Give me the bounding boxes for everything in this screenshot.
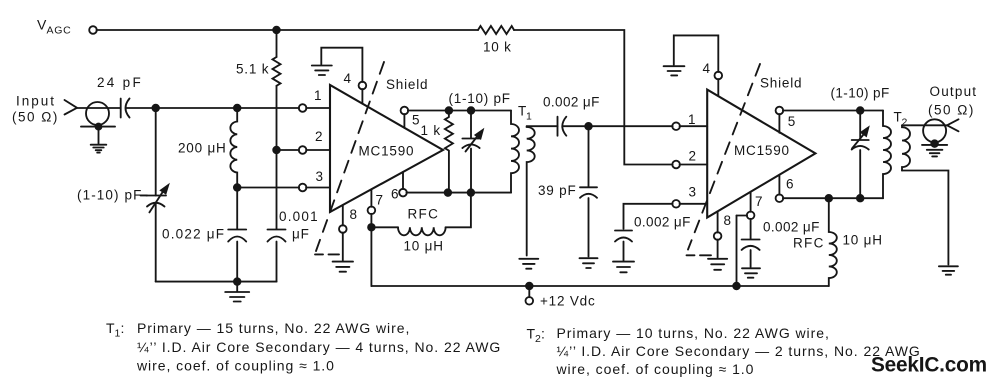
svg-text:Primary — 10 turns, No. 22 AWG: Primary — 10 turns, No. 22 AWG wire, (557, 325, 830, 341)
wire output bottom bar (922, 144, 947, 146)
RFC1 wire pin7 to coil (371, 226, 398, 228)
wire pin4 to ground U1 (321, 48, 362, 82)
node tank1 top A (446, 107, 453, 114)
op-amp U1 MC1590 triangle (330, 85, 443, 212)
capacitor C10 trimmer 1-10pF (852, 111, 869, 199)
wire source bottom bar (81, 126, 115, 128)
svg-text:0.022 μF: 0.022 μF (162, 226, 225, 241)
pin 7 circle U1 (368, 207, 376, 215)
wire pin5 row U2 (783, 110, 883, 112)
svg-text:4: 4 (344, 71, 352, 86)
wire pin2 stub U1 (306, 149, 330, 151)
wire pin6 row (407, 192, 512, 194)
pin 3 circle U1 (299, 184, 307, 192)
ground output (927, 150, 943, 157)
node pin2 junction (273, 147, 280, 154)
shield dashes to ground U1 (315, 253, 339, 255)
pin 4 circle U2 (715, 72, 723, 80)
svg-text:MC1590: MC1590 (734, 143, 790, 158)
wire C4 bottom (276, 242, 278, 282)
wire pin4 to ground U2 (674, 35, 719, 72)
svg-text:0.002 μF: 0.002 μF (763, 219, 820, 234)
terminal VAGC (89, 26, 97, 34)
capacitor C5 trimmer 1-10pF (462, 111, 479, 193)
resistor R3 1k (445, 111, 453, 193)
svg-text::: : (121, 320, 126, 336)
wire pin7 stub U1 (370, 189, 372, 207)
transformer T1 primary (511, 111, 519, 193)
svg-text:0.002 μF: 0.002 μF (634, 215, 691, 230)
ground input (91, 145, 107, 153)
wire C6 to pin1 U2 (563, 125, 673, 127)
capacitor C3 0.022uF (228, 230, 246, 242)
wire pin7 stub U2 (750, 192, 752, 212)
wire +12V terminal stub (528, 286, 530, 297)
node riser tap (733, 283, 740, 290)
node source bottom (96, 124, 102, 130)
capacitor C2 trimmer 1-10pF (147, 196, 167, 207)
wire VAGC rail right (514, 30, 673, 165)
wire input (77, 107, 120, 109)
wire C1 to pin1 (126, 107, 299, 109)
node pin7 junction (368, 224, 375, 231)
node VAGC-R1 junction (273, 27, 280, 34)
wire R1 top (276, 30, 278, 57)
svg-text:2: 2 (902, 117, 909, 129)
node tank1 bottom B (468, 189, 475, 196)
wire C8 stem (623, 242, 625, 261)
inductor RFC1 10uH (398, 227, 446, 235)
svg-text:0.001: 0.001 (279, 209, 319, 224)
capacitor C6 0.002uF coupling (558, 117, 567, 136)
svg-text:¼’’ I.D. Air Core Secondary —: ¼’’ I.D. Air Core Secondary — 4 turns, N… (137, 339, 501, 355)
svg-text:(50 Ω): (50 Ω) (928, 103, 975, 118)
pin 5 circle U1 (401, 107, 409, 115)
svg-text:4: 4 (703, 61, 711, 76)
arrow trimmer C10 (852, 135, 864, 149)
svg-text:6: 6 (391, 186, 399, 201)
arrow trimmer C5 (466, 136, 478, 152)
svg-text:RFC: RFC (793, 236, 825, 251)
svg-text:2: 2 (315, 129, 323, 144)
source output 50ohm circle (923, 119, 946, 142)
svg-text:1 k: 1 k (421, 123, 441, 138)
svg-text:¼’’ I.D. Air Core Secondary —: ¼’’ I.D. Air Core Secondary — 2 turns, N… (557, 343, 921, 359)
node tank2 bottom (857, 195, 864, 202)
pin 1 circle U2 (672, 122, 680, 130)
svg-text:Output: Output (930, 84, 978, 99)
pin 7 circle U2 (747, 212, 755, 220)
pin 6 circle U2 (776, 194, 784, 202)
svg-text:1: 1 (688, 112, 696, 127)
source input 50ohm circle (86, 102, 109, 125)
ground bottom-right (939, 266, 958, 274)
svg-text:8: 8 (350, 207, 358, 222)
wire pin6 row U2 (783, 197, 883, 199)
node input junction A (152, 105, 159, 112)
wire T2 secondary bottom (902, 171, 948, 265)
capacitor C7 39pF (580, 126, 597, 256)
inductor L1 200uH (230, 108, 237, 188)
svg-text:RFC: RFC (408, 206, 440, 221)
wire pin8 stub U2 (717, 212, 719, 233)
wire RFC1 right (446, 193, 471, 228)
wire pin3 row left U2 (624, 204, 673, 229)
wire AGC line down (276, 150, 278, 229)
wire pin7 down U1 (370, 214, 372, 228)
svg-text:24 pF: 24 pF (97, 75, 143, 90)
wire ground stub bottom-left (236, 282, 238, 292)
wire pin8 stub U1 (342, 205, 344, 226)
wire pin6 stub U1 (402, 172, 404, 189)
svg-text:MC1590: MC1590 (359, 143, 415, 158)
capacitor C4 0.001uF (268, 230, 286, 242)
terminal +12Vdc (526, 297, 534, 305)
shield dashed line U1 (316, 62, 384, 251)
node input junction B (234, 105, 241, 112)
ground pin4 U2 (664, 66, 685, 75)
svg-text:Shield: Shield (760, 75, 802, 90)
pin 2 circle U1 (299, 146, 307, 154)
pin 1 circle U1 (299, 104, 307, 112)
svg-text:SeekIC.com: SeekIC.com (871, 354, 987, 377)
wire trimmer C2 top (155, 108, 157, 196)
svg-text:5: 5 (412, 112, 420, 127)
node +12V terminal tap (526, 283, 533, 290)
svg-text:μF: μF (292, 226, 310, 241)
wire label tick 1-10pF left (141, 194, 148, 196)
arrow trimmer C2 (149, 192, 162, 212)
capacitor C9 0.002uF pin7 (742, 219, 760, 267)
svg-text:(50 Ω): (50 Ω) (12, 110, 59, 125)
ground pin8 U1 (333, 262, 353, 272)
svg-text:10 μH: 10 μH (843, 232, 883, 247)
wire pin4 stub U1 (361, 89, 363, 104)
wire pin3 row stage1 (237, 187, 299, 189)
wire riser rail to pin7 (736, 216, 738, 287)
ground pin4 U1 (312, 66, 332, 76)
capacitor C8 0.002uF pin3 (615, 231, 632, 242)
svg-text:2: 2 (689, 149, 697, 164)
wire output (902, 124, 947, 126)
wire C3 stem (236, 188, 238, 282)
pin 8 circle U2 (714, 232, 722, 240)
resistor R1 5.1k (273, 57, 281, 86)
svg-text:AGC: AGC (47, 25, 72, 37)
wire pin2 stub U2 (680, 164, 708, 166)
pin 8 circle U1 (339, 225, 347, 233)
ground C9 (742, 268, 760, 277)
shield dashed line U2 (688, 64, 760, 250)
svg-text:39 pF: 39 pF (538, 183, 577, 198)
svg-text:200 μH: 200 μH (178, 141, 227, 156)
svg-text:1: 1 (314, 88, 322, 103)
wire bottom-left rail (156, 281, 277, 283)
svg-text:wire, coef. of coupling ≈ 1.0: wire, coef. of coupling ≈ 1.0 (556, 361, 755, 377)
svg-text:3: 3 (316, 169, 324, 184)
svg-text:+12 Vdc: +12 Vdc (540, 294, 596, 309)
wire pin8 ground stub U2 (717, 240, 719, 258)
ground C8 (613, 262, 634, 273)
wire pin1 stub U1 (306, 107, 330, 109)
wire pin7 jog from riser (737, 215, 748, 217)
svg-text:(1-10) pF: (1-10) pF (77, 188, 142, 203)
svg-text:wire, coef. of coupling ≈ 1.0: wire, coef. of coupling ≈ 1.0 (136, 358, 335, 374)
ground bottom-left (225, 292, 249, 302)
transformer T2 secondary (902, 125, 910, 170)
svg-text:5: 5 (788, 114, 796, 129)
wire pin5 row (408, 110, 511, 112)
wire +12V rail (371, 285, 828, 287)
resistor R2 10k (478, 26, 514, 34)
wire VAGC rail left (97, 29, 479, 31)
input arrow (65, 100, 78, 115)
wire pin1 stub U2 (680, 125, 708, 127)
svg-text:8: 8 (724, 213, 732, 228)
op-amp U2 MC1590 triangle (707, 90, 815, 218)
node 39pF tap (585, 123, 592, 130)
wire pin5 stub U1 (403, 114, 405, 128)
pin 3 circle U2 (672, 200, 680, 208)
svg-text:5.1 k: 5.1 k (236, 62, 269, 77)
shield dashes to ground U2 (687, 254, 712, 256)
svg-text::: : (541, 326, 546, 342)
inductor RFC2 10uH (829, 198, 837, 286)
svg-text:Shield: Shield (386, 77, 428, 92)
ground T1 secondary (519, 259, 538, 269)
svg-text:(1-10) pF: (1-10) pF (831, 85, 890, 100)
wire R1 bottom to pin2 (276, 86, 278, 150)
svg-text:1: 1 (526, 111, 533, 123)
pin 5 circle U2 (776, 107, 784, 115)
transformer T1 secondary (527, 126, 535, 255)
svg-text:10 μH: 10 μH (404, 238, 444, 253)
node tank1 bottom A (445, 189, 452, 196)
wire pin6 stub U2 (778, 175, 780, 195)
ground pin8 U2 (708, 259, 727, 270)
node bottom-left ground junction (234, 278, 241, 285)
svg-text:Input: Input (16, 94, 56, 109)
svg-text:0.002 μF: 0.002 μF (543, 95, 600, 110)
wire pin3 stub U2 (680, 203, 708, 205)
node output source bottom (931, 140, 938, 147)
pin 6 circle U1 (399, 189, 407, 197)
node RFC2 tap (826, 195, 833, 202)
pin 2 circle U2 (672, 161, 680, 169)
ground C7 39pF (580, 258, 598, 268)
pin 4 circle U1 (359, 82, 367, 90)
svg-text:6: 6 (786, 176, 794, 191)
node tank1 top B (468, 107, 475, 114)
svg-text:(1-10) pF: (1-10) pF (449, 91, 511, 106)
capacitor C1 24pF (121, 99, 130, 118)
node tank2 top (857, 107, 864, 114)
wire pin2 row stage1 (277, 149, 300, 151)
svg-text:10 k: 10 k (483, 40, 512, 55)
wire pin4 stub U2 (717, 79, 719, 96)
svg-text:3: 3 (689, 184, 697, 199)
wire source ground stub (98, 127, 100, 144)
transformer T2 primary (883, 111, 891, 199)
output arrow (947, 119, 959, 131)
wire pin7 riser to rail (370, 227, 372, 286)
svg-text:Primary — 15 turns, No. 22 AWG: Primary — 15 turns, No. 22 AWG wire, (137, 320, 410, 336)
node L1 bottom (234, 184, 241, 191)
svg-text:7: 7 (755, 194, 763, 209)
wire pin5 stub U2 (778, 114, 780, 133)
svg-text:7: 7 (376, 193, 384, 208)
wire pin8 ground stub U1 (342, 233, 344, 261)
wire T1 to C6 (527, 125, 558, 127)
wire pin3 stub U1 (306, 187, 330, 189)
wire trimmer C2 bottom (155, 203, 157, 282)
